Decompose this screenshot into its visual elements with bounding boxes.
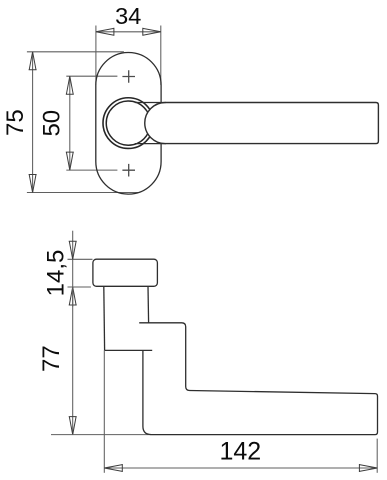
dim 14,5 / 77 dimension line (vertical, continuous) bbox=[72, 231, 74, 307]
screw mark top (+) bbox=[122, 70, 135, 83]
svg-text:50: 50 bbox=[38, 110, 65, 137]
dim 77 extension line bottom bbox=[51, 434, 151, 436]
neck back edge bbox=[103, 286, 106, 350]
dim 142 arrow right bbox=[359, 464, 377, 472]
dim 142 arrow left bbox=[104, 464, 122, 472]
neck silhouette top line bbox=[135, 102, 166, 104]
dim 14,5 extension line bottom bbox=[68, 286, 91, 288]
dim 75 arrow up bbox=[29, 52, 37, 70]
svg-text:75: 75 bbox=[2, 109, 29, 136]
collar outer circle bbox=[103, 98, 154, 149]
lever profile (side view) bbox=[139, 323, 377, 435]
dim 14,5 arrow down (above top ext line) bbox=[69, 241, 77, 259]
lever bar (front view) bbox=[145, 103, 379, 144]
screw mark bottom (+) bbox=[122, 164, 135, 177]
dim 75 extension line bottom bbox=[27, 192, 138, 194]
dim 77 arrow down bbox=[69, 417, 77, 435]
dim 142 extension line left (continues neck back edge) bbox=[103, 350, 105, 472]
dim 75 dimension line bbox=[32, 52, 34, 193]
dim 34 arrow left bbox=[96, 28, 114, 36]
svg-text:14,5: 14,5 bbox=[43, 250, 70, 297]
neck step shoulder bbox=[105, 349, 153, 351]
dim 14,5 extension line top bbox=[68, 258, 93, 260]
rose plate (side view) bbox=[93, 259, 157, 286]
dim 50 arrow down bbox=[66, 152, 74, 170]
dim 50 extension line bottom bbox=[66, 169, 117, 171]
dim 77 dimension line bbox=[72, 287, 74, 435]
dim 34 extension line right bbox=[160, 26, 162, 85]
collar inner circle bbox=[106, 101, 150, 145]
oval rose plate bbox=[96, 53, 161, 195]
dim 75 extension line top bbox=[27, 51, 124, 53]
dim 142 dimension line bbox=[104, 467, 377, 469]
svg-text:142: 142 bbox=[219, 437, 261, 465]
dim 34 extension line left bbox=[95, 26, 97, 85]
dim 50 extension line top bbox=[66, 75, 117, 77]
svg-text:77: 77 bbox=[38, 345, 65, 372]
svg-text:34: 34 bbox=[115, 3, 141, 29]
neck silhouette bottom line bbox=[135, 143, 166, 145]
dim 14,5 arrow up (below bottom ext line, also 77 top arrow) bbox=[69, 287, 77, 305]
dim 34 arrow right bbox=[143, 28, 161, 36]
dim 50 dimension line bbox=[69, 76, 71, 170]
dim 34 dimension line bbox=[96, 31, 161, 33]
dim 142 extension line right bbox=[376, 439, 378, 473]
dim 75 arrow down bbox=[29, 175, 37, 193]
dim 50 arrow up bbox=[66, 76, 74, 94]
neck front edge bbox=[147, 286, 150, 322]
